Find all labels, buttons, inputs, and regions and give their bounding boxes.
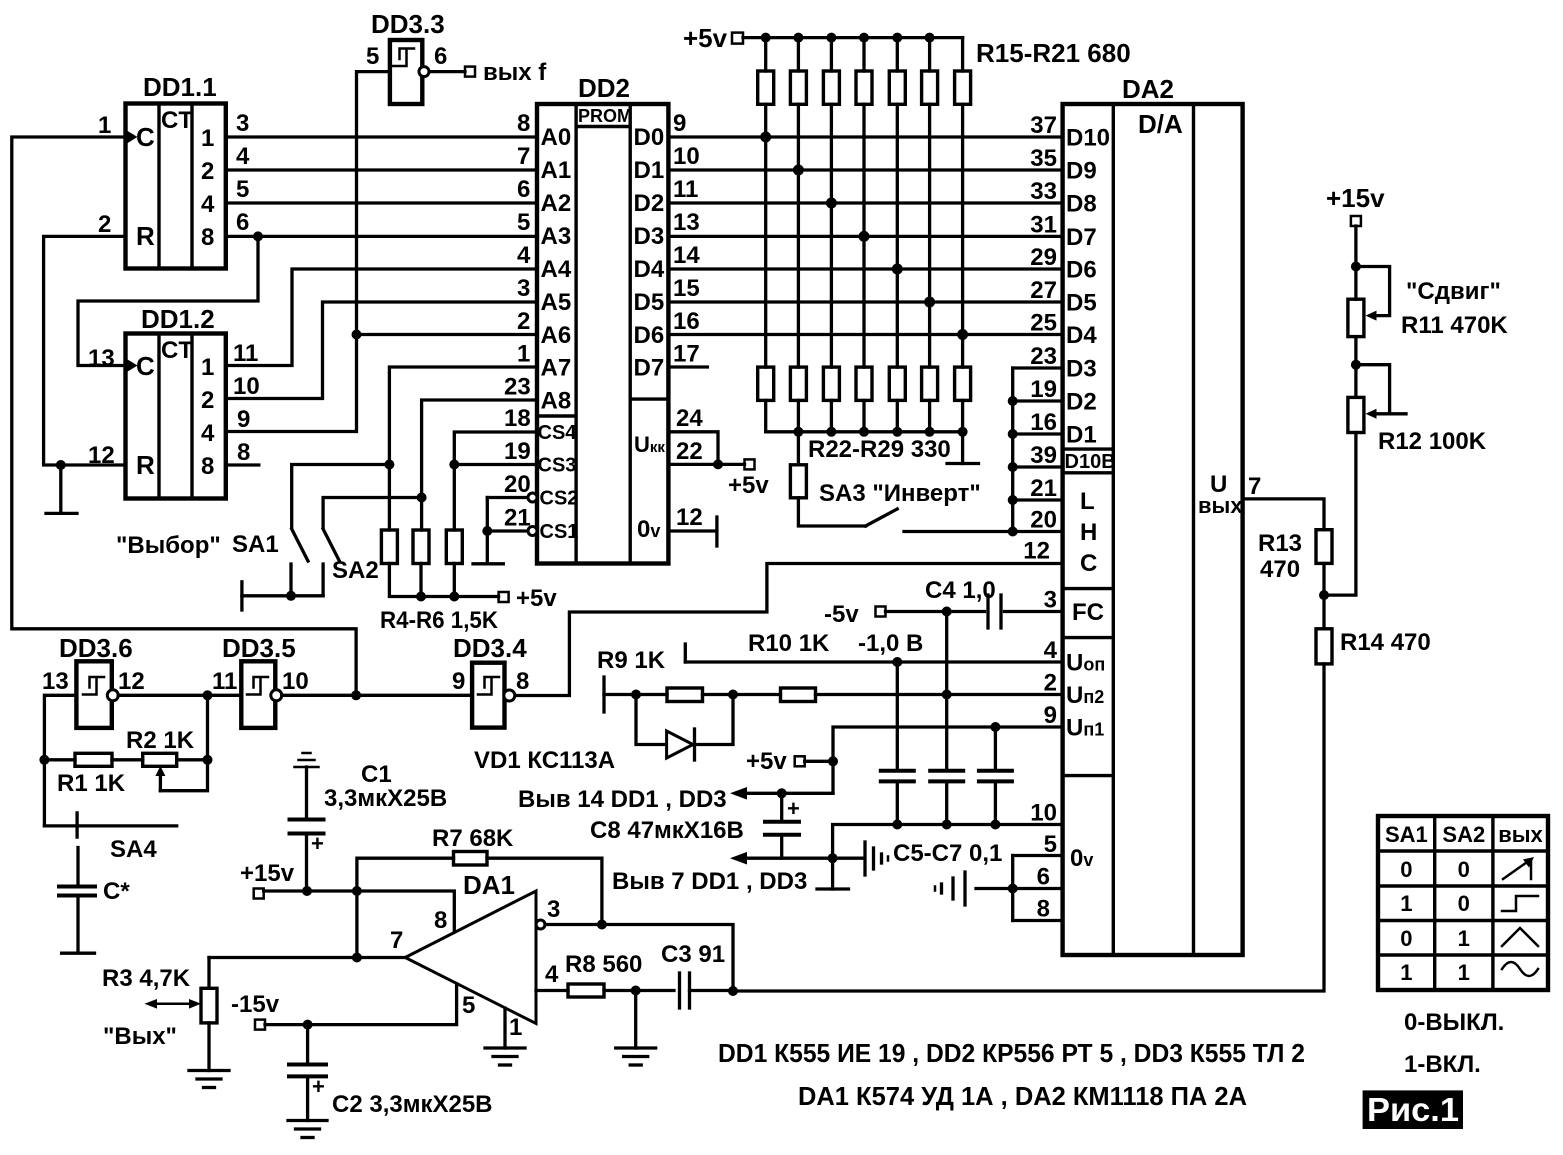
capacitor C* [59, 887, 95, 954]
svg-text:D3: D3 [634, 223, 665, 250]
svg-text:C1: C1 [361, 761, 392, 788]
resistor R20 [922, 38, 938, 368]
svg-text:470: 470 [1260, 556, 1300, 583]
svg-text:A1: A1 [541, 157, 572, 184]
ground C2 [288, 1121, 327, 1138]
node A7/SA1 junction [384, 460, 394, 470]
svg-text:D6: D6 [634, 322, 665, 349]
svg-text:DD1 К555 ИЕ 19 , DD2 КР556 РТ: DD1 К555 ИЕ 19 , DD2 КР556 РТ 5 , DD3 К5… [718, 1038, 1305, 1068]
svg-text:11: 11 [212, 668, 237, 695]
svg-text:D/A: D/A [1138, 109, 1183, 139]
svg-text:R4-R6 1,5K: R4-R6 1,5K [380, 607, 499, 634]
svg-text:13: 13 [42, 668, 69, 695]
svg-text:2: 2 [201, 158, 214, 185]
wire A4 from DD1.2 pin11 [226, 269, 537, 366]
node +5v rail junction [761, 33, 771, 43]
resistor R17 [823, 38, 839, 368]
resistor R1 [44, 753, 112, 766]
wire A8 from SA2 [422, 400, 537, 530]
wire SA3 to DA2 H pin [904, 530, 1013, 533]
svg-text:D1: D1 [1066, 422, 1097, 449]
svg-text:1: 1 [509, 1014, 522, 1041]
svg-text:D4: D4 [1066, 322, 1097, 349]
svg-text:4: 4 [517, 242, 531, 269]
waveform ramp [1503, 857, 1534, 879]
resistor R15 [758, 38, 774, 368]
node D2 column junction [826, 198, 837, 209]
ground chassis at Vyv7 [865, 842, 888, 875]
op-amp DA1 [405, 870, 545, 1024]
svg-text:20: 20 [1030, 507, 1057, 534]
svg-text:R8 560: R8 560 [565, 951, 642, 978]
svg-text:A8: A8 [541, 388, 572, 415]
svg-text:17: 17 [673, 341, 700, 368]
svg-text:+5v: +5v [728, 472, 769, 499]
svg-text:7: 7 [390, 927, 403, 954]
svg-text:R: R [136, 221, 155, 251]
switch SA3 [866, 509, 898, 526]
svg-text:18: 18 [504, 405, 531, 432]
PROM DD2 [537, 73, 668, 564]
pad vyx f [465, 67, 475, 77]
resistor R29 [790, 432, 865, 526]
wire D1 bus [668, 168, 1062, 171]
svg-text:21: 21 [504, 505, 531, 532]
svg-text:D10B: D10B [1065, 451, 1116, 473]
svg-text:C4 1,0: C4 1,0 [925, 577, 996, 604]
svg-text:D5: D5 [1066, 290, 1097, 317]
zener diode VD1 [636, 695, 733, 761]
power pad +5v (R4-R6) [499, 592, 509, 602]
svg-text:C2 3,3мкХ25В: C2 3,3мкХ25В [332, 1091, 493, 1118]
svg-text:SA2: SA2 [332, 557, 379, 584]
svg-text:R13: R13 [1258, 530, 1302, 557]
svg-text:H: H [1080, 519, 1097, 546]
switch SA1 [291, 529, 308, 596]
svg-text:4: 4 [236, 143, 250, 170]
resistor R14 [1316, 595, 1332, 664]
wire Vyv14 rail [736, 792, 833, 795]
waveform sine [1502, 962, 1538, 976]
svg-text:1: 1 [1458, 926, 1470, 951]
resistor R18 [856, 38, 872, 368]
resistor R13 [1316, 530, 1332, 564]
svg-text:9: 9 [673, 110, 686, 137]
waveform triangle [1502, 928, 1538, 946]
resistor R27 [922, 367, 938, 432]
svg-text:DD3.6: DD3.6 [59, 633, 133, 663]
svg-text:5: 5 [462, 992, 475, 1019]
svg-text:19: 19 [1030, 376, 1057, 403]
wire Uop pin 4 [685, 644, 1062, 662]
wire SA2 horizontal [323, 498, 422, 528]
svg-text:D10: D10 [1066, 125, 1110, 152]
power pad +5v (DD2) [745, 459, 755, 469]
svg-text:DD1.1: DD1.1 [143, 72, 217, 102]
node +5v rail junction [826, 33, 836, 43]
capacitor C2 [289, 1025, 326, 1121]
resistor R4 [381, 530, 397, 564]
svg-text:37: 37 [1030, 112, 1057, 139]
wire A7 from SA1 [389, 367, 537, 530]
wire DD3.3 input down to A6 [357, 72, 390, 335]
svg-text:D2: D2 [634, 190, 665, 217]
svg-text:CS3: CS3 [538, 455, 577, 477]
svg-text:8: 8 [201, 453, 214, 480]
resistor R2 trimmer [112, 695, 208, 790]
node D1 column junction [793, 165, 804, 176]
wire R4-R6 to +5v rail [389, 564, 498, 597]
svg-text:8: 8 [516, 668, 529, 695]
node CS4/CS3 junction [449, 460, 459, 470]
svg-text:DA1 К574 УД 1А , DA2 КМ1118 ПА: DA1 К574 УД 1А , DA2 КМ1118 ПА 2А [798, 1081, 1247, 1111]
svg-text:VD1 КС113А: VD1 КС113А [474, 747, 615, 774]
node A8/SA2 junction [417, 493, 427, 503]
counter DD1.2 [126, 304, 226, 499]
resistor R7 [357, 852, 602, 958]
wire D7 stub [668, 365, 707, 368]
svg-text:+5v: +5v [683, 23, 728, 53]
trigger DD3.6 [59, 633, 133, 728]
svg-text:D7: D7 [1066, 224, 1097, 251]
wire CS2 with bubble [487, 496, 528, 499]
node D0 column junction [760, 132, 771, 143]
svg-text:16: 16 [1030, 409, 1057, 436]
svg-text:A3: A3 [541, 223, 572, 250]
capacitors C5 C6 C7 [881, 662, 914, 825]
svg-text:1-ВКЛ.: 1-ВКЛ. [1404, 1051, 1481, 1078]
svg-text:39: 39 [1030, 442, 1057, 469]
svg-text:A0: A0 [541, 124, 572, 151]
svg-text:A4: A4 [541, 256, 572, 283]
wire DD3.5 out to DD3.4 in [282, 694, 472, 697]
wire DD1.2 pin8 stub [226, 463, 259, 466]
node D4 column junction [892, 264, 903, 275]
wire pin10 rail [833, 825, 1063, 859]
wire DD3.3 output to pad [430, 70, 466, 73]
node +5v rail junction [793, 33, 803, 43]
svg-text:SA1: SA1 [1385, 822, 1428, 847]
svg-text:D9: D9 [1066, 158, 1097, 185]
wire CS1 with bubble [487, 529, 528, 532]
svg-text:+15v: +15v [1326, 183, 1385, 213]
svg-text:C8 47мкХ16В: C8 47мкХ16В [590, 817, 744, 844]
svg-text:D5: D5 [634, 289, 665, 316]
svg-text:D3: D3 [1066, 356, 1097, 383]
svg-text:DD3.5: DD3.5 [222, 633, 296, 663]
svg-text:1: 1 [1400, 960, 1412, 985]
wire R14 to output line [733, 664, 1324, 991]
resistor R21 [955, 38, 971, 368]
trigger DD3.3 [371, 9, 445, 104]
svg-text:3: 3 [236, 110, 249, 137]
svg-text:FC: FC [1072, 599, 1104, 626]
wire DA1 pin7 input [209, 956, 405, 959]
ground R8 junction [616, 991, 656, 1066]
svg-text:D0: D0 [634, 124, 665, 151]
node R common ground stub [56, 460, 66, 470]
wire R11 to R12 [1354, 337, 1357, 398]
svg-text:PROM: PROM [578, 106, 632, 126]
svg-text:4: 4 [201, 191, 215, 218]
svg-text:1: 1 [1458, 960, 1470, 985]
resistor R22 [758, 367, 774, 432]
node DD1.1 pin6 junction [253, 231, 263, 241]
pin ladder 5-6-8 of DA2 [1008, 856, 1063, 921]
svg-text:1: 1 [1400, 891, 1412, 916]
resistor R26 [889, 367, 905, 432]
svg-text:"Сдвиг": "Сдвиг" [1406, 278, 1501, 305]
capacitor C4 [988, 595, 1001, 628]
wire -15v to pin5 [265, 984, 457, 1025]
svg-text:C5-C7 0,1: C5-C7 0,1 [893, 840, 1002, 867]
svg-text:10: 10 [1030, 800, 1057, 827]
wire R13 bottom [1322, 563, 1325, 595]
svg-text:"Выбор": "Выбор" [116, 532, 221, 559]
svg-text:DD3.3: DD3.3 [371, 9, 445, 39]
svg-text:CS2: CS2 [540, 488, 579, 510]
wire SA common line [242, 594, 323, 597]
svg-text:8: 8 [237, 439, 250, 466]
svg-text:SA3 "Инверт": SA3 "Инверт" [819, 480, 981, 507]
svg-text:1: 1 [517, 341, 530, 368]
capacitor C8 [765, 793, 800, 858]
svg-text:4: 4 [1044, 637, 1058, 664]
wire DD3.6 input loop [44, 695, 76, 826]
trigger DD3.5 [222, 633, 296, 728]
svg-text:C3 91: C3 91 [661, 941, 725, 968]
svg-text:0: 0 [1400, 926, 1412, 951]
svg-text:Uоп: Uоп [1066, 650, 1105, 677]
svg-text:3: 3 [517, 275, 530, 302]
wire A2 [226, 201, 537, 204]
wire A0 [226, 135, 537, 138]
svg-text:D2: D2 [1066, 389, 1097, 416]
svg-text:A6: A6 [541, 322, 572, 349]
svg-text:5: 5 [517, 209, 530, 236]
resistor R28 [955, 367, 971, 432]
svg-text:12: 12 [676, 504, 703, 531]
DAC DA2 [1063, 74, 1243, 955]
svg-text:R10 1K: R10 1K [748, 630, 830, 657]
svg-text:DA1: DA1 [463, 870, 515, 900]
svg-text:D8: D8 [1066, 191, 1097, 218]
svg-text:-1,0 В: -1,0 В [858, 630, 923, 657]
wire D5 bus [668, 300, 1062, 303]
node +5v rail junction [925, 33, 935, 43]
svg-text:R14 470: R14 470 [1340, 629, 1431, 656]
svg-text:5: 5 [366, 43, 379, 70]
wire D2 bus [668, 201, 1062, 204]
svg-text:6: 6 [1037, 864, 1050, 891]
wire +15v line to pin8 [264, 891, 455, 931]
wire DD1.1 R to DD1.2 R [44, 236, 126, 465]
svg-text:23: 23 [1030, 343, 1057, 370]
svg-text:DD1.2: DD1.2 [141, 304, 215, 334]
svg-text:A7: A7 [541, 355, 572, 382]
svg-text:11: 11 [233, 340, 258, 367]
svg-text:Uп1: Uп1 [1066, 715, 1104, 742]
potentiometer R3 [201, 958, 217, 1071]
wire Up1 pin 9 [833, 727, 1063, 793]
node D3 column junction [859, 231, 870, 242]
svg-text:1: 1 [98, 112, 111, 139]
svg-text:29: 29 [1030, 244, 1057, 271]
wire DA1 pin3 output [545, 925, 733, 992]
terminal bar bottom rail [961, 432, 964, 464]
svg-text:2: 2 [201, 387, 214, 414]
svg-text:8: 8 [434, 907, 447, 934]
trigger DD3.4 [453, 633, 527, 728]
svg-text:+5v: +5v [516, 585, 557, 612]
svg-text:0: 0 [1458, 857, 1470, 882]
svg-text:R7 68K: R7 68K [432, 825, 514, 852]
wire DD2 pin12 0v with terminal bar [668, 529, 717, 532]
wire DD2 pin24 Ucc [668, 432, 718, 465]
resistor R24 [823, 367, 839, 432]
svg-text:-5v: -5v [824, 601, 859, 628]
svg-text:16: 16 [673, 308, 700, 335]
svg-text:4: 4 [201, 420, 215, 447]
svg-text:R2 1K: R2 1K [126, 727, 195, 754]
svg-text:+: + [312, 1074, 325, 1099]
wire A5 from DD1.2 pin10 [226, 302, 537, 399]
ground R3 [189, 1071, 229, 1088]
svg-text:8: 8 [201, 224, 214, 251]
wire DA1 pin1 ground [485, 1008, 525, 1065]
resistor R23 [790, 367, 806, 432]
svg-text:27: 27 [1030, 277, 1057, 304]
svg-text:R1 1K: R1 1K [57, 770, 126, 797]
svg-text:+5v: +5v [746, 748, 787, 775]
svg-text:3: 3 [1044, 587, 1057, 614]
node +5v rail junction [892, 33, 902, 43]
wire Vyv7 rail [736, 857, 864, 860]
wire bottom common rail [766, 430, 963, 433]
svg-text:33: 33 [1030, 178, 1057, 205]
svg-text:R3 4,7K: R3 4,7K [102, 965, 191, 992]
svg-text:8: 8 [1037, 896, 1050, 923]
wiper arrow R3 [145, 999, 202, 1009]
wire A1 [226, 168, 537, 171]
wire D4 bus [668, 267, 1062, 270]
svg-text:1: 1 [201, 125, 214, 152]
svg-text:R22-R29 330: R22-R29 330 [808, 436, 951, 463]
svg-text:2: 2 [98, 211, 111, 238]
svg-text:"Вых": "Вых" [103, 1023, 177, 1050]
svg-text:21: 21 [1030, 475, 1057, 502]
svg-text:DA2: DA2 [1122, 74, 1174, 104]
wire A3 [226, 235, 537, 238]
terminal bar R9 input [602, 677, 605, 712]
resistor R8 [536, 984, 674, 997]
svg-text:10: 10 [233, 373, 260, 400]
svg-text:5: 5 [236, 176, 249, 203]
svg-text:A2: A2 [541, 190, 572, 217]
wire DD3.4 output to DA2 pin C [515, 564, 1063, 696]
svg-text:4: 4 [545, 961, 559, 988]
resistor R5 [413, 530, 429, 564]
node R13/R12/R14 junction [1319, 590, 1329, 600]
svg-text:D7: D7 [634, 355, 665, 382]
terminal bar SA common [240, 582, 243, 610]
svg-text:L: L [1080, 488, 1095, 515]
wire D6 bus [668, 333, 1062, 336]
svg-text:0v: 0v [1070, 845, 1093, 872]
svg-text:D6: D6 [1066, 257, 1097, 284]
terminal bar below Vyv7 [817, 858, 849, 889]
wire CS3 [454, 463, 537, 466]
svg-text:22: 22 [676, 438, 703, 465]
svg-text:DD3.4: DD3.4 [453, 633, 527, 663]
svg-text:R15-R21 680: R15-R21 680 [976, 38, 1131, 68]
svg-text:Рис.1: Рис.1 [1367, 1091, 1459, 1128]
wire DD3.6 out to DD3.5 in [118, 694, 241, 697]
svg-text:3: 3 [547, 896, 560, 923]
svg-text:вых: вых [1498, 822, 1543, 847]
svg-text:6: 6 [434, 43, 447, 70]
svg-text:SA2: SA2 [1442, 822, 1485, 847]
svg-text:Выв 14 DD1 , DD3: Выв 14 DD1 , DD3 [518, 786, 727, 813]
svg-text:R9 1K: R9 1K [597, 647, 666, 674]
svg-text:+: + [311, 831, 324, 856]
svg-text:14: 14 [673, 242, 700, 269]
node D5 column junction [924, 297, 935, 308]
svg-text:CT: CT [161, 337, 193, 364]
resistor R10 [781, 688, 816, 702]
svg-text:35: 35 [1030, 145, 1057, 172]
svg-text:20: 20 [504, 471, 531, 498]
svg-text:CT: CT [161, 107, 193, 134]
svg-text:12: 12 [1023, 538, 1050, 565]
svg-text:вых: вых [1198, 493, 1243, 518]
svg-text:15: 15 [673, 275, 700, 302]
svg-text:9: 9 [237, 406, 250, 433]
svg-text:C: C [136, 351, 155, 381]
wire A6 from DD1.2 pin9 [226, 335, 537, 432]
svg-text:10: 10 [673, 143, 700, 170]
svg-text:D1: D1 [634, 157, 665, 184]
svg-text:0: 0 [1400, 857, 1412, 882]
svg-text:R12 100K: R12 100K [1378, 428, 1487, 455]
wire DD2 pin22 Ucc to +5v pad [668, 463, 744, 466]
svg-text:25: 25 [1030, 310, 1057, 337]
svg-text:13: 13 [673, 209, 700, 236]
wire +15v to R11 [1354, 226, 1357, 299]
svg-text:CS4: CS4 [538, 422, 578, 444]
wire Up2 pin 2 line [604, 693, 667, 696]
svg-text:0v: 0v [637, 516, 660, 543]
svg-text:9: 9 [452, 668, 465, 695]
switch SA2 [323, 529, 339, 596]
svg-text:12: 12 [118, 668, 145, 695]
node D6 column junction [957, 329, 968, 340]
wire DD1.1 pin6 to DD1.2 clock [78, 236, 258, 365]
svg-text:31: 31 [1030, 211, 1057, 238]
wire R12 bottom to junction [1324, 433, 1356, 596]
svg-text:вых f: вых f [483, 59, 547, 86]
svg-text:+15v: +15v [240, 860, 295, 887]
svg-text:13: 13 [88, 345, 115, 372]
capacitor C3 [680, 973, 734, 1008]
svg-text:C*: C* [103, 878, 130, 905]
table SA1 SA2 vyx [1378, 816, 1548, 990]
wire SA1 horizontal [292, 465, 390, 528]
potentiometer R12 [1348, 365, 1406, 433]
node A6 junction [352, 330, 362, 340]
svg-text:11: 11 [673, 176, 698, 203]
svg-text:6: 6 [517, 176, 530, 203]
